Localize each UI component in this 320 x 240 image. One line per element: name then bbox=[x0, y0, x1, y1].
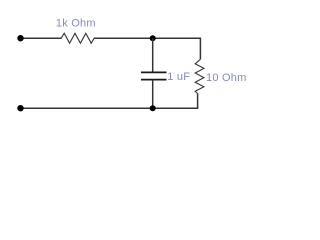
wire capacitor branch upper bbox=[152, 38, 154, 72]
wire top rail left segment bbox=[21, 37, 62, 39]
svg-text:1k Ohm: 1k Ohm bbox=[56, 17, 96, 29]
terminal dot top left bbox=[17, 35, 23, 41]
resistor R2 bbox=[195, 59, 204, 93]
node A junction dot top bbox=[150, 35, 156, 41]
capacitor C1 top plate bbox=[141, 71, 167, 73]
wire right branch upper lead bbox=[199, 38, 201, 60]
svg-text:10 Ohm: 10 Ohm bbox=[206, 72, 246, 84]
resistor R1 bbox=[61, 33, 94, 43]
capacitor C1 bottom plate bbox=[141, 79, 167, 81]
wire capacitor branch lower bbox=[152, 80, 154, 109]
wire right branch lower lead bbox=[197, 93, 199, 108]
svg-text:1 uF: 1 uF bbox=[167, 71, 190, 83]
node B junction dot bottom bbox=[150, 105, 156, 111]
wire top rail right segment bbox=[94, 37, 200, 39]
terminal dot bottom left bbox=[17, 105, 23, 111]
wire bottom rail bbox=[21, 107, 199, 109]
